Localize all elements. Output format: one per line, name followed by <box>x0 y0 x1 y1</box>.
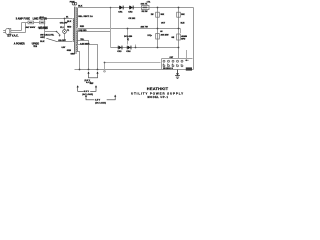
svg-text:MFD: MFD <box>181 39 186 41</box>
junction switch pivot <box>56 31 58 33</box>
svg-text:+: + <box>167 64 168 66</box>
svg-text:117 V.A.C.: 117 V.A.C. <box>7 35 19 38</box>
svg-text:(DC LOAD): (DC LOAD) <box>95 102 106 105</box>
svg-text:20K 11W: 20K 11W <box>161 34 169 36</box>
battery label box <box>186 67 192 70</box>
wire top bus <box>78 7 194 9</box>
svg-text:T1: T1 <box>67 30 69 32</box>
resistor R4 <box>177 12 181 17</box>
wire riser right <box>25 23 27 33</box>
svg-text:V): V) <box>127 39 129 41</box>
annotation bracket B2 <box>86 96 115 100</box>
svg-text:UTILITY POWER SUPPLY: UTILITY POWER SUPPLY <box>131 91 184 95</box>
transformer T1 primary winding <box>72 19 75 42</box>
terminal panel left edge <box>161 59 163 70</box>
terminal fuse arrow <box>185 59 188 61</box>
diode CR1 <box>119 6 124 10</box>
junction rail right <box>178 7 180 9</box>
annotation bracket B0 <box>89 73 98 78</box>
rail bleeder left <box>157 8 159 48</box>
switch S1A blade <box>57 32 61 36</box>
svg-text:FUSE: FUSE <box>70 1 76 3</box>
capacitor C1 <box>28 21 34 24</box>
terminal jack AC <box>104 71 106 73</box>
ground symbol <box>176 73 179 75</box>
wire cap drop <box>128 29 136 48</box>
svg-text:+: + <box>172 64 173 66</box>
svg-text:.047 600V: .047 600V <box>25 26 36 29</box>
wire AC feed <box>105 62 161 64</box>
wire to switch rail <box>44 19 46 39</box>
diode CR4 <box>127 46 132 50</box>
pilot lamp leads <box>64 19 66 42</box>
wire tap riser <box>110 8 112 48</box>
fuse F1 <box>72 2 75 5</box>
annotation bracket B1 <box>78 86 96 91</box>
wire filament lead 2 <box>78 45 98 70</box>
svg-text:DC(+250: DC(+250 <box>124 36 133 38</box>
wire right border <box>193 8 195 70</box>
svg-text:CR 1N2: CR 1N2 <box>128 18 135 20</box>
wire filament lead 3 <box>78 52 80 70</box>
svg-text:6.3V GRN: 6.3V GRN <box>80 43 90 45</box>
resistor R2 <box>156 12 160 17</box>
junction lamp top <box>64 18 66 20</box>
rail bleeder right <box>178 8 180 59</box>
junction AC feed <box>104 62 106 64</box>
wire fused tap <box>186 50 188 59</box>
svg-text:3 AMP FUSE: 3 AMP FUSE <box>16 18 31 21</box>
junction bottom 2 <box>88 69 90 71</box>
svg-text:R1 2W: R1 2W <box>142 11 148 13</box>
wire common bus <box>78 28 181 30</box>
wire corner common <box>180 29 182 34</box>
svg-text:40/450: 40/450 <box>181 35 187 38</box>
wire mid tap <box>78 31 111 33</box>
svg-text:ILE: ILE <box>34 46 38 48</box>
svg-text:BLK: BLK <box>78 5 83 7</box>
switch S1A arm <box>45 31 57 33</box>
title block <box>131 86 184 99</box>
junction cap bottom <box>135 47 137 49</box>
svg-text:48K 7W: 48K 7W <box>141 26 148 29</box>
transformer T1 secondary HV winding <box>76 8 79 28</box>
wire primary top <box>45 18 73 20</box>
svg-text:ON-OFF: ON-OFF <box>58 40 66 42</box>
svg-text:BLK-YEL: BLK-YEL <box>46 34 55 36</box>
svg-text:BLK: BLK <box>40 41 45 43</box>
wire bottom bus <box>75 69 194 71</box>
junction bottom 3 <box>97 69 99 71</box>
terminal row top <box>163 60 183 62</box>
pilot lamp PL1 <box>63 30 67 34</box>
switch S1B blade <box>46 38 56 41</box>
capacitor C4 electrolytic <box>177 34 181 40</box>
svg-text:6.3 V: 6.3 V <box>84 91 90 93</box>
transformer T1 filament winding <box>76 46 79 52</box>
junction rail left <box>157 7 159 9</box>
svg-text:BLK: BLK <box>40 17 45 19</box>
wire plug bottom <box>11 32 26 34</box>
resistor R1 box <box>142 6 150 10</box>
svg-text:250 150 6.3 0: 250 150 6.3 0 <box>163 68 173 70</box>
diode CR2 <box>129 6 134 10</box>
svg-text:2W: 2W <box>151 14 154 16</box>
junction cap top <box>127 28 129 30</box>
terminal panel top edge <box>162 58 193 60</box>
svg-text:+: + <box>163 64 164 66</box>
svg-text:MODEL UP-1: MODEL UP-1 <box>148 95 169 99</box>
svg-text:S1: S1 <box>66 16 68 18</box>
svg-text:GRN: GRN <box>67 50 72 52</box>
wire AC feed riser <box>104 63 106 70</box>
AC plug P1 <box>3 28 11 34</box>
labels small text <box>7 0 187 104</box>
svg-text:4.5 V: 4.5 V <box>95 99 101 102</box>
wire primary bottom <box>57 41 73 43</box>
wire filter row <box>22 22 40 24</box>
transformer T1 core <box>75 7 77 54</box>
svg-text:BLK: BLK <box>67 21 72 23</box>
wire riser left <box>21 23 23 31</box>
svg-text:BLK-RED: BLK-RED <box>39 28 49 30</box>
svg-text:5 V4) RED: 5 V4) RED <box>78 29 88 32</box>
svg-text:A6: A6 <box>160 30 162 33</box>
svg-text:PL1: PL1 <box>60 27 63 29</box>
transformer T1 secondary mid winding <box>76 32 79 45</box>
svg-text:RED: RED <box>80 26 85 28</box>
svg-text:A POWER: A POWER <box>14 43 25 46</box>
svg-text:SEL. RECT. 1A: SEL. RECT. 1A <box>78 15 93 18</box>
ground stub <box>177 70 179 76</box>
junction bottom 1 <box>79 69 81 71</box>
resistor R3 <box>156 34 160 40</box>
junction tap top <box>110 7 112 9</box>
terminal row bottom <box>163 65 183 67</box>
wire diode row 2 <box>111 47 179 49</box>
capacitor C2 <box>40 21 45 24</box>
svg-text:GRY: GRY <box>40 37 45 39</box>
diode CR3 <box>118 46 123 50</box>
svg-text:RED: RED <box>67 27 72 29</box>
wire plug top <box>11 30 22 32</box>
wire filament lead 1 <box>78 41 89 70</box>
svg-text:GRN: GRN <box>71 53 76 55</box>
svg-text:(AC LOAD): (AC LOAD) <box>82 93 93 96</box>
